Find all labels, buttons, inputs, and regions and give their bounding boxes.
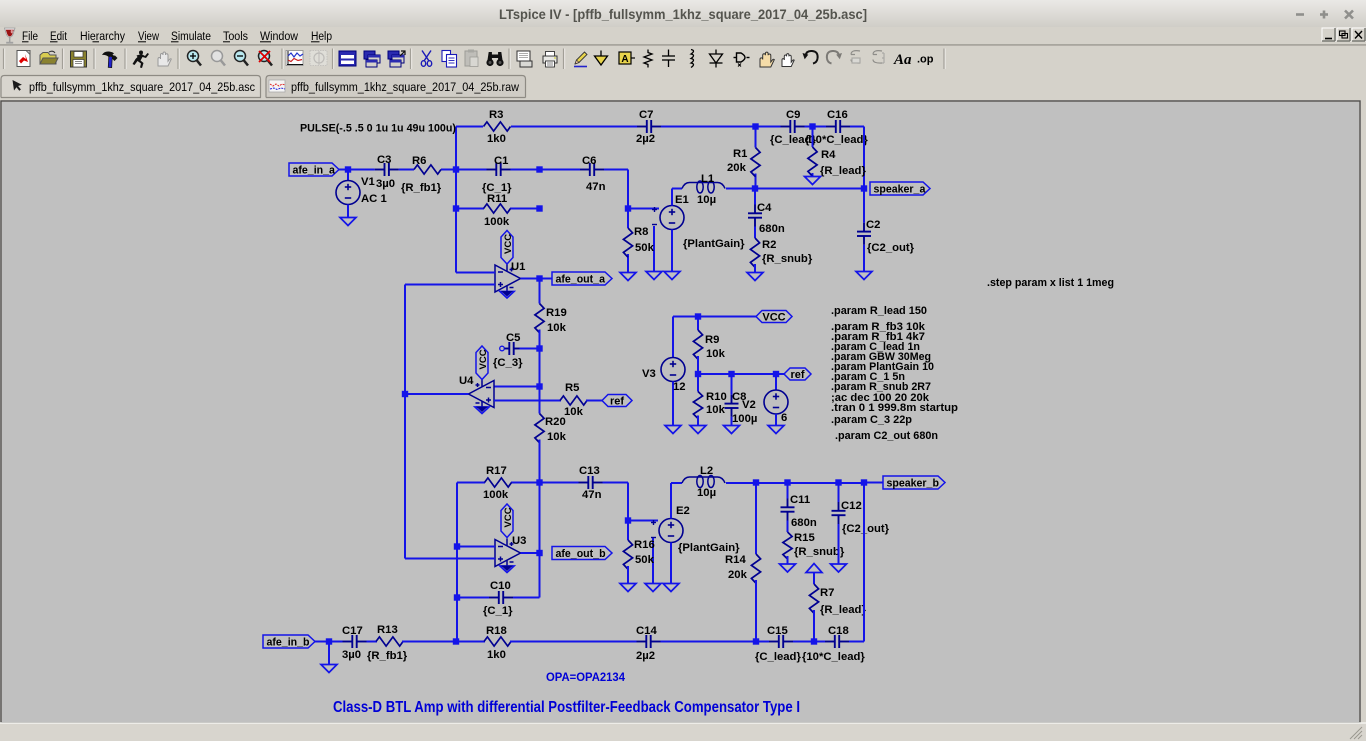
voltage source V2 (775, 374, 777, 390)
node (835, 479, 841, 485)
resistor R2 (754, 227, 756, 239)
ground (321, 665, 337, 673)
net flag ref (602, 395, 632, 407)
svg-text:afe_in_b: afe_in_b (267, 637, 311, 649)
wire (457, 482, 485, 484)
svg-text:A: A (621, 54, 628, 65)
wire (863, 127, 865, 189)
svg-text:R11: R11 (487, 193, 507, 205)
wire (494, 386, 540, 388)
wire (671, 230, 673, 272)
svg-text:File: File (22, 29, 38, 43)
svg-text:.param C_3 22p: .param C_3 22p (831, 414, 912, 426)
capacitor C2 (863, 189, 865, 223)
ground (768, 426, 784, 434)
resistor R4 (812, 127, 814, 148)
resistor R20 (535, 414, 544, 443)
svg-text:10µ: 10µ (697, 194, 716, 206)
svg-text:C4: C4 (757, 202, 772, 214)
svg-text:pffb_fullsymm_1khz_square_2017: pffb_fullsymm_1khz_square_2017_04_25b.as… (29, 80, 255, 94)
inductor L1 (682, 181, 725, 193)
net flag afe_out_a (552, 272, 612, 285)
wire (698, 373, 776, 375)
node (536, 479, 542, 485)
resistor R3 (484, 122, 511, 131)
svg-text:12: 12 (673, 381, 686, 393)
resistor R19 (539, 279, 541, 304)
svg-text:C17: C17 (342, 625, 363, 637)
svg-text:V2: V2 (742, 399, 756, 411)
svg-text:C18: C18 (828, 625, 849, 637)
svg-text:6: 6 (781, 412, 787, 424)
capacitor C6 (580, 163, 604, 176)
power flag VCC U4 (476, 346, 488, 380)
wire (513, 597, 540, 599)
wire (698, 316, 756, 318)
wire (603, 482, 629, 484)
svg-text:100k: 100k (484, 216, 510, 228)
net flag afe_out_b (552, 547, 612, 560)
svg-text:VCC: VCC (503, 234, 514, 254)
svg-text:ref: ref (790, 369, 804, 381)
nc marker C5 (500, 346, 505, 351)
svg-text:R3: R3 (489, 109, 503, 121)
node (536, 166, 542, 172)
dependent source E1 (660, 206, 684, 230)
wire (457, 597, 489, 599)
wire (627, 483, 629, 521)
svg-text:V1: V1 (361, 176, 375, 188)
svg-text:{R_fb1}: {R_fb1} (401, 182, 442, 194)
node (454, 543, 460, 549)
node ref net (695, 371, 701, 377)
svg-text:{C_lead}: {C_lead} (755, 651, 801, 663)
ground (831, 564, 847, 572)
wire (456, 641, 485, 643)
svg-text:R9: R9 (705, 334, 719, 346)
wire (776, 373, 784, 375)
wire (726, 188, 864, 190)
svg-text:47n: 47n (582, 489, 602, 501)
wire (511, 482, 540, 484)
svg-text:C7: C7 (639, 109, 653, 121)
ground (856, 272, 872, 280)
node (625, 517, 631, 523)
svg-text:R17: R17 (486, 465, 507, 477)
node (536, 205, 542, 211)
svg-text:2µ2: 2µ2 (636, 650, 655, 662)
svg-text:10k: 10k (706, 404, 726, 416)
svg-text:{PlantGain}: {PlantGain} (683, 238, 745, 250)
svg-text:10µ: 10µ (697, 487, 716, 499)
capacitor C16 (826, 120, 850, 133)
wire (339, 169, 375, 171)
resistor R18 (484, 637, 511, 646)
svg-text:C9: C9 (786, 109, 800, 121)
resistor R13 (376, 637, 403, 646)
resistor R6 (414, 165, 441, 174)
svg-text:.tran 0 1 999.8m startup: .tran 0 1 999.8m startup (831, 402, 958, 414)
svg-text:C1: C1 (494, 155, 508, 167)
voltage source V1 (347, 170, 349, 181)
wire (540, 482, 579, 484)
wire (315, 641, 343, 643)
inductor L2 (671, 482, 682, 484)
ground (747, 273, 763, 281)
svg-text:100µ: 100µ (732, 413, 757, 425)
wire (511, 169, 540, 171)
net flag speaker_a (870, 182, 930, 195)
capacitor C4 (754, 189, 756, 205)
svg-text:speaker_b: speaker_b (887, 478, 940, 490)
node afe_out_b (536, 550, 542, 556)
node afe_out_a (536, 275, 542, 281)
svg-text:R13: R13 (377, 624, 398, 636)
capacitor C1 (487, 163, 511, 176)
svg-text:C15: C15 (767, 625, 788, 637)
wire (539, 553, 541, 598)
svg-text:R4: R4 (821, 149, 836, 161)
wire (864, 482, 883, 484)
net flag ref 2 (784, 368, 811, 380)
svg-text:50k: 50k (635, 554, 655, 566)
svg-text:{R_snub}: {R_snub} (762, 253, 813, 265)
svg-text:V3: V3 (642, 368, 656, 380)
svg-text:afe_out_a: afe_out_a (556, 274, 606, 286)
wire (510, 641, 637, 643)
svg-text:{C2_out}: {C2_out} (842, 523, 890, 535)
ground (645, 584, 661, 592)
wire (456, 483, 458, 642)
wire (456, 208, 484, 210)
resistor R10 (697, 374, 699, 392)
wire (863, 483, 865, 642)
node R3/C9-R1 junction (752, 123, 758, 129)
svg-text:C16: C16 (827, 109, 848, 121)
ground (805, 177, 821, 185)
svg-text:C13: C13 (579, 465, 600, 477)
svg-text:10k: 10k (547, 322, 567, 334)
capacitor C13 (579, 476, 603, 489)
svg-text:VCC: VCC (503, 507, 514, 527)
node afe_in_b (326, 638, 332, 644)
svg-text:R14: R14 (725, 554, 746, 566)
svg-text:C12: C12 (841, 500, 862, 512)
op-amp U1 (495, 264, 521, 293)
svg-text:VCC: VCC (762, 312, 785, 324)
svg-text:speaker_a: speaker_a (874, 184, 926, 196)
svg-text:afe_out_b: afe_out_b (556, 548, 607, 560)
svg-text:pffb_fullsymm_1khz_square_2017: pffb_fullsymm_1khz_square_2017_04_25b.ra… (291, 80, 519, 94)
svg-text:20k: 20k (728, 569, 748, 581)
wire (494, 400, 561, 402)
wire (328, 642, 330, 665)
svg-text:R1: R1 (733, 148, 747, 160)
svg-text:{C_1}: {C_1} (483, 605, 513, 617)
svg-text:C5: C5 (506, 332, 520, 344)
wire (539, 483, 541, 554)
wire (457, 546, 495, 548)
voltage source V3 (672, 317, 674, 358)
node speaker_a net (752, 185, 758, 191)
capacitor C15 (769, 635, 793, 648)
wire (511, 126, 637, 128)
wire (510, 208, 540, 210)
node (861, 479, 867, 485)
node (773, 371, 779, 377)
ground (620, 273, 636, 281)
svg-text:{C_3}: {C_3} (493, 357, 523, 369)
node (453, 638, 459, 644)
ground (inverted) R7 top (806, 564, 822, 573)
wire (404, 285, 406, 559)
node (861, 185, 867, 191)
node (453, 205, 459, 211)
svg-text:{10*C_lead}: {10*C_lead} (805, 134, 868, 146)
ground (663, 584, 679, 592)
net flag VCC (756, 311, 792, 323)
capacitor C9 (781, 120, 805, 133)
svg-text:R5: R5 (565, 382, 579, 394)
svg-text:afe_in_a: afe_in_a (293, 165, 336, 177)
svg-text:C14: C14 (636, 625, 657, 637)
ground (620, 584, 636, 592)
svg-text:100k: 100k (483, 489, 509, 501)
svg-text:R15: R15 (794, 532, 815, 544)
svg-text:View: View (138, 29, 159, 43)
svg-text:{10*C_lead}: {10*C_lead} (802, 651, 865, 663)
net flag afe_in_b (263, 635, 315, 648)
resistor R9 (697, 317, 699, 331)
svg-text:VCC: VCC (478, 349, 489, 369)
power flag VCC U3 (501, 504, 513, 538)
wire (670, 543, 672, 584)
svg-text:{R_lead}: {R_lead} (820, 165, 866, 177)
svg-text:LTspice IV - [pffb_fullsymm_1k: LTspice IV - [pffb_fullsymm_1khz_square_… (499, 7, 867, 22)
wire (455, 127, 457, 273)
wire (540, 169, 581, 171)
svg-text:C11: C11 (790, 494, 810, 506)
svg-text:47n: 47n (586, 181, 606, 193)
svg-text:Aa: Aa (893, 52, 912, 68)
node (811, 638, 817, 644)
resistor R14 (755, 483, 757, 555)
svg-text:R10: R10 (706, 391, 727, 403)
wire (521, 552, 540, 554)
svg-text:Edit: Edit (50, 29, 67, 43)
wire (402, 641, 456, 643)
node (728, 371, 734, 377)
svg-text:1k0: 1k0 (487, 133, 506, 145)
svg-text:Simulate: Simulate (171, 29, 211, 43)
svg-text:U3: U3 (512, 535, 526, 547)
svg-text:E2: E2 (676, 505, 690, 517)
svg-text:.param R_lead 150: .param R_lead 150 (831, 305, 927, 317)
node (454, 594, 460, 600)
svg-text:Help: Help (311, 29, 332, 43)
resistor R5 (560, 396, 587, 405)
svg-text:{R_fb1}: {R_fb1} (367, 650, 408, 662)
svg-text:{R_lead}: {R_lead} (820, 604, 866, 616)
svg-text:ref: ref (610, 396, 624, 408)
wire (405, 558, 495, 560)
resistor R8 (627, 209, 629, 229)
svg-text:3µ0: 3µ0 (342, 649, 361, 661)
svg-text:Tools: Tools (223, 29, 248, 43)
wire (756, 126, 781, 128)
svg-text:{PlantGain}: {PlantGain} (678, 542, 740, 554)
wire (456, 272, 495, 274)
node C9/C16-R4 junction (809, 123, 815, 129)
svg-text:680n: 680n (791, 517, 817, 529)
svg-text:L1: L1 (701, 173, 714, 185)
wire (399, 169, 414, 171)
svg-text:C10: C10 (490, 580, 511, 592)
svg-text:Hierarchy: Hierarchy (80, 29, 126, 43)
node afe_in_a junction (345, 166, 351, 172)
wire (628, 208, 659, 210)
svg-text:2µ2: 2µ2 (636, 133, 655, 145)
wire (539, 387, 541, 414)
wire (661, 641, 770, 643)
capacitor C14 (637, 635, 661, 648)
svg-text:R7: R7 (820, 587, 834, 599)
wire (367, 641, 378, 643)
wire (441, 169, 487, 171)
wire (604, 169, 628, 171)
wire (653, 226, 655, 272)
wire (726, 482, 864, 484)
wire (673, 316, 698, 318)
power flag VCC U1 (501, 231, 513, 265)
svg-text:{C2_out}: {C2_out} (867, 242, 915, 254)
svg-text:1k0: 1k0 (487, 649, 506, 661)
resistor R16 (627, 521, 629, 541)
svg-text:Class-D BTL Amp with different: Class-D BTL Amp with differential Postfi… (333, 699, 800, 716)
ground (340, 218, 356, 226)
wire (671, 189, 673, 206)
op-amp U4 (469, 380, 495, 409)
svg-text:10k: 10k (564, 406, 584, 418)
svg-text:3µ0: 3µ0 (376, 178, 395, 190)
net flag afe_in_a (289, 163, 339, 176)
wire (849, 641, 864, 643)
capacitor C11 (787, 483, 789, 499)
capacitor C10 (489, 591, 513, 604)
ground (664, 272, 680, 280)
svg-text:C3: C3 (377, 154, 391, 166)
svg-text:C2: C2 (866, 219, 880, 231)
resistor R15 (787, 521, 789, 533)
svg-text:R19: R19 (546, 307, 567, 319)
ground (665, 426, 681, 434)
wire (521, 278, 553, 280)
svg-text:C6: C6 (582, 155, 596, 167)
capacitor C12 (838, 483, 840, 503)
capacitor C3 (375, 163, 399, 176)
svg-text:{R_snub}: {R_snub} (794, 546, 845, 558)
node (536, 345, 542, 351)
node (784, 479, 790, 485)
resistor R11 (484, 204, 511, 213)
capacitor C18 (825, 635, 849, 648)
ground (724, 426, 740, 434)
svg-text:R2: R2 (762, 239, 776, 251)
node (625, 205, 631, 211)
svg-text:E1: E1 (675, 194, 689, 206)
svg-text:10k: 10k (706, 348, 726, 360)
svg-text:AC 1: AC 1 (361, 193, 387, 205)
svg-text:.param C2_out 680n: .param C2_out 680n (835, 430, 938, 442)
resistor R17 (485, 478, 512, 487)
node VCC (695, 313, 701, 319)
resistor R1 (755, 127, 757, 148)
wire (670, 483, 672, 519)
svg-text:R16: R16 (634, 539, 655, 551)
node (753, 638, 759, 644)
capacitor C17 (343, 635, 367, 648)
wire (661, 126, 756, 128)
svg-text:R8: R8 (634, 226, 648, 238)
wire (672, 188, 682, 190)
wire (456, 126, 483, 128)
op-amp U3 (495, 539, 521, 568)
wire (627, 170, 629, 209)
svg-text:10k: 10k (547, 431, 567, 443)
wire (850, 126, 864, 128)
wire (520, 348, 540, 350)
wire (805, 126, 827, 128)
wire (628, 520, 658, 522)
svg-text:U4: U4 (459, 375, 474, 387)
node speaker_b net (753, 479, 759, 485)
dependent source E2 (659, 519, 683, 543)
ground (690, 426, 706, 434)
wire (793, 641, 825, 643)
svg-text:R20: R20 (545, 416, 566, 428)
node (453, 166, 459, 172)
svg-text:.op: .op (917, 54, 934, 66)
wire (405, 284, 495, 286)
svg-text:R6: R6 (412, 155, 426, 167)
svg-text:.step param x list 1 1meg: .step param x list 1 1meg (987, 277, 1114, 289)
svg-text:R18: R18 (486, 625, 507, 637)
svg-text:Window: Window (260, 29, 298, 43)
wire (586, 400, 602, 402)
svg-text:OPA=OPA2134: OPA=OPA2134 (546, 670, 625, 684)
node (536, 383, 542, 389)
svg-text:50k: 50k (635, 242, 655, 254)
wire (405, 393, 469, 395)
ground (646, 272, 662, 280)
svg-text:L2: L2 (700, 465, 713, 477)
svg-text:680n: 680n (759, 223, 785, 235)
svg-text:PULSE(-.5 .5 0 1u 1u 49u 100u): PULSE(-.5 .5 0 1u 1u 49u 100u) (300, 123, 456, 135)
capacitor C8 (731, 374, 733, 395)
net flag speaker_b (883, 476, 945, 489)
wire (652, 538, 654, 584)
capacitor C7 (637, 120, 661, 133)
ground (780, 564, 796, 572)
node (402, 391, 408, 397)
svg-text:20k: 20k (727, 162, 747, 174)
resistor R7 (813, 573, 815, 585)
wire (539, 349, 541, 387)
svg-text:U1: U1 (511, 261, 525, 273)
